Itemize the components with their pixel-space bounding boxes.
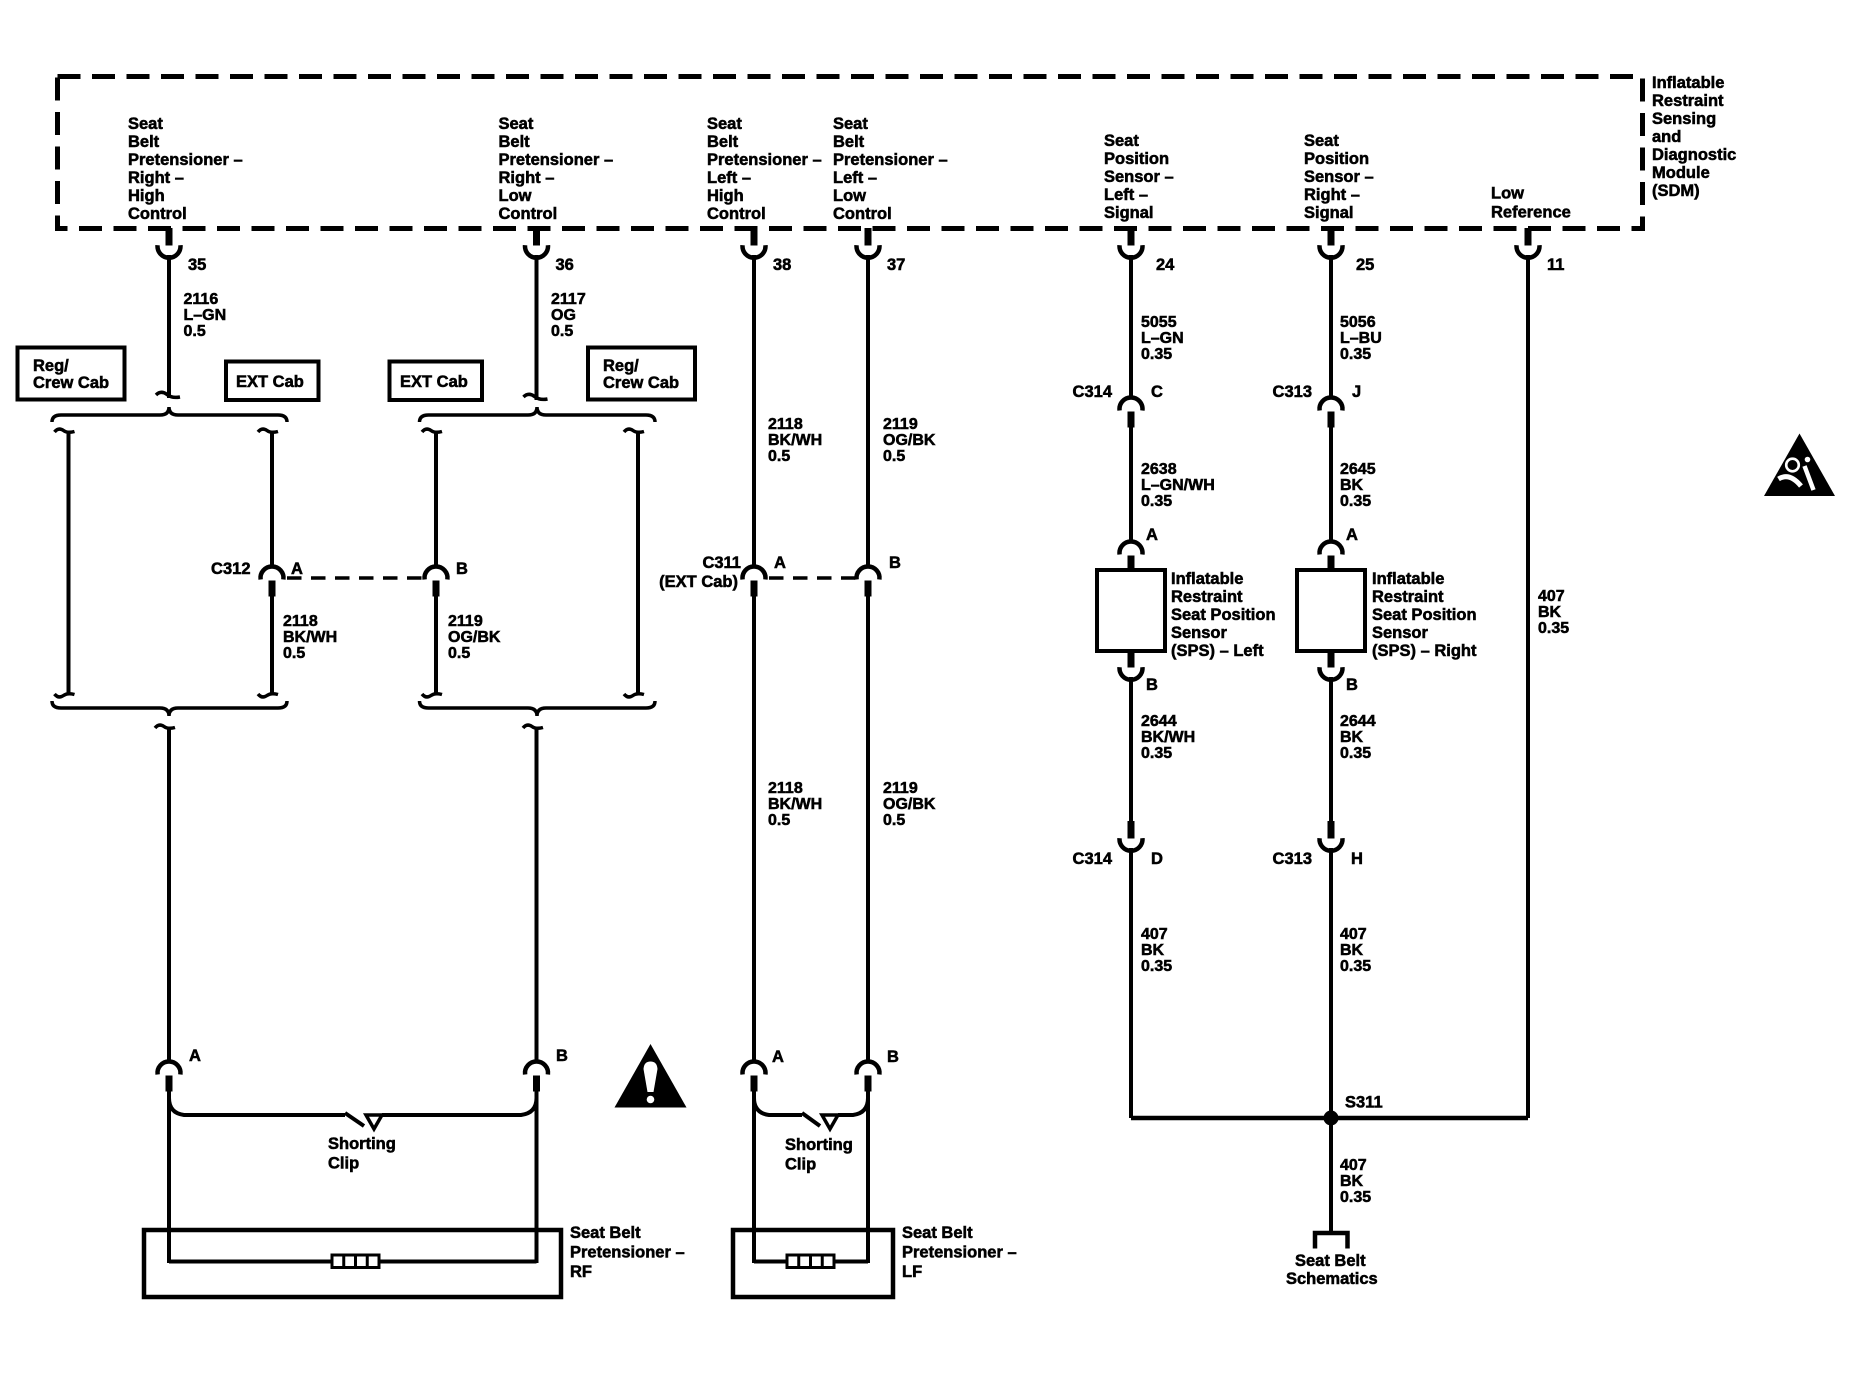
- connector C313 pin H: [1320, 821, 1343, 851]
- svg-text:(SDM): (SDM): [1652, 182, 1700, 200]
- svg-text:Crew Cab: Crew Cab: [33, 374, 109, 392]
- connector C311 pin A: [743, 566, 766, 596]
- inter-connector dashed link C311: [769, 576, 855, 580]
- svg-text:B: B: [889, 554, 901, 572]
- svg-text:Position: Position: [1104, 150, 1169, 168]
- option box Reg/Crew Cab (left): [18, 348, 125, 400]
- svg-text:Crew Cab: Crew Cab: [603, 374, 679, 392]
- svg-text:Belt: Belt: [128, 133, 160, 151]
- svg-text:Diagnostic: Diagnostic: [1652, 146, 1736, 164]
- wire pin 24 to C314 C: [1129, 255, 1133, 398]
- pretensioner RF igniter element: [332, 1255, 379, 1268]
- svg-text:B: B: [887, 1048, 899, 1066]
- svg-text:Restraint: Restraint: [1652, 92, 1724, 110]
- svg-text:Module: Module: [1652, 164, 1710, 182]
- svg-text:Position: Position: [1304, 150, 1369, 168]
- svg-text:407: 407: [1340, 926, 1367, 943]
- svg-text:0.35: 0.35: [1340, 1189, 1371, 1206]
- svg-text:0.5: 0.5: [883, 448, 905, 465]
- option box EXT Cab (second): [390, 362, 483, 401]
- SDM connector pin 38: [743, 228, 766, 258]
- svg-text:Seat: Seat: [128, 115, 163, 133]
- svg-text:2118: 2118: [768, 780, 803, 797]
- svg-text:EXT Cab: EXT Cab: [236, 373, 304, 391]
- wire merge to pretensioner RF (high side): [155, 725, 175, 728]
- option wire Reg/Crew Cab branch: [55, 429, 75, 432]
- svg-text:Control: Control: [499, 205, 558, 223]
- svg-text:0.35: 0.35: [1340, 958, 1371, 975]
- svg-text:Shorting: Shorting: [328, 1135, 396, 1153]
- svg-text:2119: 2119: [448, 613, 483, 630]
- svg-text:BK: BK: [1538, 604, 1562, 621]
- off-page connector to Seat Belt Schematics: [1315, 1233, 1348, 1249]
- svg-text:Seat Position: Seat Position: [1171, 606, 1276, 624]
- svg-text:Seat Belt: Seat Belt: [570, 1224, 641, 1242]
- wire break squiggle: [156, 392, 180, 397]
- svg-text:Left –: Left –: [1104, 186, 1148, 204]
- svg-text:C313: C313: [1273, 850, 1312, 868]
- svg-text:Sensor –: Sensor –: [1104, 168, 1174, 186]
- svg-text:Belt: Belt: [707, 133, 739, 151]
- splice S311 junction dot: [1324, 1111, 1339, 1126]
- svg-text:0.35: 0.35: [1141, 958, 1172, 975]
- connector B at pretensioner LF: [857, 1061, 880, 1091]
- svg-text:2644: 2644: [1340, 713, 1376, 730]
- Seat Belt Pretensioner - LF box: [733, 1230, 893, 1297]
- svg-text:OG/BK: OG/BK: [883, 796, 936, 813]
- svg-text:C314: C314: [1073, 850, 1113, 868]
- svg-text:2644: 2644: [1141, 713, 1177, 730]
- svg-text:0.5: 0.5: [551, 323, 573, 340]
- svg-text:B: B: [556, 1047, 568, 1065]
- svg-text:2118: 2118: [283, 613, 318, 630]
- shorting clip LF: [754, 1089, 802, 1115]
- svg-text:0.5: 0.5: [883, 812, 905, 829]
- svg-text:24: 24: [1156, 256, 1175, 274]
- svg-text:C: C: [1151, 383, 1163, 401]
- svg-text:Seat: Seat: [833, 115, 868, 133]
- brace: cab options merge (RF low): [420, 701, 656, 716]
- svg-text:Pretensioner –: Pretensioner –: [570, 1244, 685, 1262]
- svg-text:0.35: 0.35: [1340, 745, 1371, 762]
- svg-text:25: 25: [1356, 256, 1374, 274]
- svg-text:A: A: [189, 1047, 201, 1065]
- svg-text:Control: Control: [128, 205, 187, 223]
- svg-text:Sensor: Sensor: [1372, 624, 1429, 642]
- svg-text:Belt: Belt: [499, 133, 531, 151]
- option wire EXT Cab branch with C312 A: [258, 429, 278, 432]
- svg-text:L–GN: L–GN: [1141, 330, 1184, 347]
- connector B at pretensioner RF: [525, 1061, 548, 1091]
- svg-text:L–GN: L–GN: [184, 307, 227, 324]
- svg-text:Pretensioner –: Pretensioner –: [833, 151, 948, 169]
- svg-text:37: 37: [887, 256, 905, 274]
- svg-text:5055: 5055: [1141, 314, 1177, 331]
- svg-text:Seat: Seat: [707, 115, 742, 133]
- svg-text:Seat: Seat: [499, 115, 534, 133]
- svg-text:407: 407: [1340, 1157, 1367, 1174]
- svg-text:Belt: Belt: [833, 133, 865, 151]
- svg-text:407: 407: [1538, 588, 1565, 605]
- svg-text:Clip: Clip: [328, 1155, 359, 1173]
- svg-text:2117: 2117: [551, 291, 586, 308]
- svg-text:Low: Low: [833, 187, 866, 205]
- svg-text:0.35: 0.35: [1538, 620, 1569, 637]
- svg-text:B: B: [1346, 676, 1358, 694]
- splice S311 bus wire: [1131, 1116, 1528, 1121]
- svg-text:BK: BK: [1340, 477, 1364, 494]
- svg-text:B: B: [1146, 676, 1158, 694]
- wire merge to pretensioner RF (low side): [523, 725, 543, 728]
- svg-text:(EXT Cab): (EXT Cab): [659, 573, 738, 591]
- svg-text:407: 407: [1141, 926, 1168, 943]
- svg-text:L–BU: L–BU: [1340, 330, 1382, 347]
- svg-text:Shorting: Shorting: [785, 1136, 853, 1154]
- svg-text:Seat Position: Seat Position: [1372, 606, 1477, 624]
- pretensioner LF igniter element: [787, 1255, 834, 1268]
- svg-text:11: 11: [1547, 256, 1564, 274]
- svg-text:A: A: [1146, 526, 1158, 544]
- svg-text:2119: 2119: [883, 416, 918, 433]
- svg-text:S311: S311: [1345, 1094, 1383, 1112]
- svg-text:Restraint: Restraint: [1372, 588, 1444, 606]
- svg-text:OG: OG: [551, 307, 576, 324]
- svg-text:0.5: 0.5: [768, 448, 790, 465]
- svg-text:H: H: [1351, 850, 1363, 868]
- svg-text:0.5: 0.5: [768, 812, 790, 829]
- connector A at SPS right: [1320, 541, 1343, 571]
- svg-text:A: A: [291, 560, 303, 578]
- svg-text:BK/WH: BK/WH: [768, 432, 822, 449]
- svg-text:Left –: Left –: [833, 169, 877, 187]
- svg-text:0.5: 0.5: [184, 323, 206, 340]
- brace: cab options split (RF): [52, 407, 287, 422]
- svg-text:38: 38: [773, 256, 791, 274]
- wire pin 36 to cab-option branch: [535, 255, 539, 400]
- svg-text:L–GN/WH: L–GN/WH: [1141, 477, 1215, 494]
- svg-text:Low: Low: [1491, 185, 1524, 203]
- connector C314 pin D: [1120, 821, 1143, 851]
- svg-text:Pretensioner –: Pretensioner –: [128, 151, 243, 169]
- svg-text:C312: C312: [211, 560, 250, 578]
- Seat Belt Pretensioner - RF box: [144, 1230, 561, 1297]
- svg-text:0.35: 0.35: [1340, 346, 1371, 363]
- warning triangle with exclamation mark: [615, 1044, 687, 1108]
- wire pin 37 to C311 B: [866, 255, 870, 567]
- svg-text:Pretensioner –: Pretensioner –: [902, 1244, 1017, 1262]
- svg-text:Reg/: Reg/: [603, 357, 639, 375]
- svg-text:Pretensioner –: Pretensioner –: [707, 151, 822, 169]
- svg-text:Seat: Seat: [1304, 132, 1339, 150]
- svg-text:Seat: Seat: [1104, 132, 1139, 150]
- svg-text:Reg/: Reg/: [33, 357, 69, 375]
- connector B at SPS left: [1120, 650, 1143, 680]
- option wire Reg/Crew Cab branch (RF low): [624, 429, 644, 432]
- wire pin 38 to C311 A: [752, 255, 756, 567]
- SDM connector pin 11: [1517, 228, 1540, 258]
- wire S311 to seat belt schematics: [1329, 1118, 1333, 1231]
- svg-text:BK: BK: [1141, 942, 1165, 959]
- svg-text:J: J: [1352, 383, 1361, 401]
- svg-text:Seat Belt: Seat Belt: [902, 1224, 973, 1242]
- svg-text:Pretensioner –: Pretensioner –: [499, 151, 614, 169]
- svg-text:High: High: [128, 187, 165, 205]
- svg-text:Inflatable: Inflatable: [1372, 570, 1444, 588]
- svg-text:BK/WH: BK/WH: [283, 629, 337, 646]
- svg-text:Control: Control: [833, 205, 892, 223]
- svg-text:2638: 2638: [1141, 461, 1177, 478]
- svg-text:OG/BK: OG/BK: [883, 432, 936, 449]
- svg-text:C313: C313: [1273, 383, 1312, 401]
- svg-text:Right –: Right –: [499, 169, 555, 187]
- option box Reg/Crew Cab (second): [588, 348, 695, 400]
- wire pin 25 to C313 J: [1329, 255, 1333, 398]
- svg-text:Clip: Clip: [785, 1156, 816, 1174]
- svg-text:BK/WH: BK/WH: [1141, 729, 1195, 746]
- svg-text:C311: C311: [702, 554, 741, 572]
- option wire EXT Cab branch with C312 B: [422, 429, 442, 432]
- svg-text:Control: Control: [707, 205, 766, 223]
- svg-text:C314: C314: [1073, 383, 1113, 401]
- svg-text:Sensing: Sensing: [1652, 110, 1716, 128]
- Inflatable Restraint Seat Position Sensor (SPS) - Right box: [1297, 570, 1365, 651]
- connector C311 pin B: [857, 566, 880, 596]
- svg-text:Signal: Signal: [1304, 204, 1354, 222]
- Inflatable Restraint Seat Position Sensor (SPS) - Left box: [1097, 570, 1165, 651]
- svg-text:A: A: [1346, 526, 1358, 544]
- svg-text:Left –: Left –: [707, 169, 751, 187]
- svg-text:Right –: Right –: [1304, 186, 1360, 204]
- svg-text:A: A: [774, 554, 786, 572]
- svg-text:B: B: [456, 560, 468, 578]
- option box EXT Cab (left): [226, 362, 319, 401]
- svg-text:A: A: [772, 1048, 784, 1066]
- svg-text:Right –: Right –: [128, 169, 184, 187]
- SDM connector pin 24: [1120, 228, 1143, 258]
- svg-text:0.35: 0.35: [1340, 493, 1371, 510]
- svg-text:(SPS) – Left: (SPS) – Left: [1171, 642, 1264, 660]
- svg-text:2118: 2118: [768, 416, 803, 433]
- wire break squiggle: [524, 394, 548, 399]
- svg-text:Sensor: Sensor: [1171, 624, 1228, 642]
- brace: cab options split (RF low): [420, 407, 656, 422]
- SDM connector pin 35: [158, 228, 181, 258]
- svg-text:Restraint: Restraint: [1171, 588, 1243, 606]
- svg-text:BK: BK: [1340, 1173, 1364, 1190]
- svg-text:0.35: 0.35: [1141, 493, 1172, 510]
- brace: cab options merge (RF): [52, 701, 287, 716]
- seat belt caution triangle icon: [1764, 434, 1835, 497]
- wire pin 35 to cab-option branch: [167, 255, 171, 398]
- svg-text:BK: BK: [1340, 942, 1364, 959]
- connector A at SPS left: [1120, 541, 1143, 571]
- svg-text:and: and: [1652, 128, 1681, 146]
- svg-text:Inflatable: Inflatable: [1652, 74, 1724, 92]
- connector C312 pin B: [425, 566, 448, 596]
- svg-text:(SPS) – Right: (SPS) – Right: [1372, 642, 1477, 660]
- svg-text:2645: 2645: [1340, 461, 1376, 478]
- svg-text:5056: 5056: [1340, 314, 1376, 331]
- svg-text:BK: BK: [1340, 729, 1364, 746]
- svg-text:Schematics: Schematics: [1286, 1270, 1378, 1288]
- Inflatable Restraint Sensing and Diagnostic Module (SDM) dashed box: [58, 77, 1643, 229]
- svg-text:0.5: 0.5: [448, 645, 470, 662]
- svg-text:BK/WH: BK/WH: [768, 796, 822, 813]
- svg-text:35: 35: [188, 256, 206, 274]
- svg-text:0.35: 0.35: [1141, 745, 1172, 762]
- svg-text:RF: RF: [570, 1263, 592, 1281]
- svg-text:Low: Low: [499, 187, 532, 205]
- svg-text:LF: LF: [902, 1263, 922, 1281]
- svg-text:EXT Cab: EXT Cab: [400, 373, 468, 391]
- connector C314 pin C: [1120, 397, 1143, 427]
- svg-text:Inflatable: Inflatable: [1171, 570, 1243, 588]
- connector C313 pin J: [1320, 397, 1343, 427]
- svg-text:Seat Belt: Seat Belt: [1295, 1252, 1366, 1270]
- svg-text:0.35: 0.35: [1141, 346, 1172, 363]
- wire pin 11 low reference: [1526, 255, 1530, 1118]
- inter-connector dashed link C312: [287, 576, 424, 580]
- connector A at pretensioner LF: [743, 1061, 766, 1091]
- connector A at pretensioner RF: [158, 1061, 181, 1091]
- svg-text:Sensor –: Sensor –: [1304, 168, 1374, 186]
- connector C312 pin A: [261, 566, 284, 596]
- svg-text:0.5: 0.5: [283, 645, 305, 662]
- svg-text:Reference: Reference: [1491, 204, 1571, 222]
- shorting clip RF: [169, 1089, 345, 1115]
- SDM connector pin 25: [1320, 228, 1343, 258]
- svg-text:36: 36: [556, 256, 574, 274]
- SDM connector pin 37: [857, 228, 880, 258]
- svg-text:High: High: [707, 187, 744, 205]
- SDM connector pin 36: [525, 228, 548, 258]
- connector B at SPS right: [1320, 650, 1343, 680]
- svg-text:2116: 2116: [184, 291, 219, 308]
- svg-text:OG/BK: OG/BK: [448, 629, 501, 646]
- svg-text:Signal: Signal: [1104, 204, 1154, 222]
- svg-text:D: D: [1151, 850, 1163, 868]
- svg-text:2119: 2119: [883, 780, 918, 797]
